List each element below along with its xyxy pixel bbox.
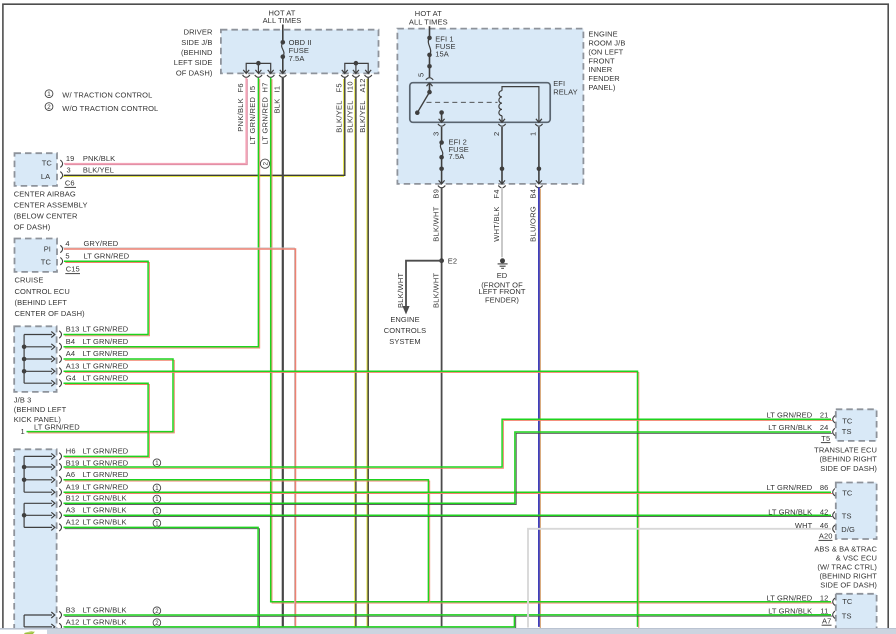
svg-text:A4: A4 [66, 349, 75, 358]
label CRUISE CONTROL ECU [15, 276, 86, 318]
svg-text:2: 2 [47, 104, 51, 111]
label BLK/WHT (B9 wire) [431, 206, 440, 242]
wire LT GRN/BLK B12 to translate ECU pin 24 [64, 432, 833, 505]
label WHT/BLK (F4 wire) [492, 206, 501, 241]
internal bus (F5/I10/A12 group) [345, 61, 368, 74]
wire LT GRN/RED A6 to pin 12 line [64, 480, 430, 603]
pin 42 of ABS ECU [820, 507, 835, 519]
label LT GRN/RED pin A6 [83, 470, 129, 479]
label ED ground location [478, 271, 525, 304]
svg-text:A12: A12 [66, 518, 80, 527]
window bottom bar [0, 628, 896, 634]
svg-text:ALL TIMES: ALL TIMES [409, 17, 448, 26]
label LT GRN/RED pin 5 [84, 251, 130, 260]
svg-text:OF DASH): OF DASH) [14, 223, 51, 232]
svg-text:C15: C15 [66, 264, 80, 273]
node E2 [439, 257, 457, 266]
pin B19 [24, 458, 79, 470]
pin 11 of bottom ECU [820, 606, 835, 618]
svg-text:C6: C6 [65, 179, 75, 188]
pin A4 of J/B3 [24, 349, 75, 363]
svg-text:(BEHIND RIGHT: (BEHIND RIGHT [819, 572, 877, 581]
connector C15 [65, 264, 80, 273]
relay pin 1 [529, 119, 543, 136]
pin A19 [24, 482, 79, 496]
svg-text:PI: PI [44, 245, 51, 254]
svg-text:ED: ED [497, 271, 508, 280]
label LT GRN/BLK pin B3 [83, 605, 127, 614]
pin G4 of J/B3 [24, 373, 76, 387]
svg-text:W/O TRACTION CONTROL: W/O TRACTION CONTROL [62, 104, 158, 113]
label BLK (I1 wire) [273, 98, 282, 113]
svg-text:INNER: INNER [588, 65, 612, 74]
wire BLU/ORG B4 down page [539, 187, 540, 628]
label BLK/WHT (branch) [396, 272, 405, 308]
svg-text:11: 11 [820, 606, 828, 615]
pin A13 of J/B3 [24, 361, 79, 375]
svg-text:A13: A13 [66, 361, 80, 370]
pin B3 [24, 605, 75, 618]
label LT GRN/RED pin 21 [767, 410, 813, 419]
relay switch fixed contact to pin 3 [439, 110, 444, 122]
svg-text:19: 19 [66, 154, 75, 163]
svg-text:I5: I5 [248, 86, 257, 93]
label LT GRN/RED pin B4 [83, 337, 129, 346]
label LT GRN/BLK pin A12 bottom [83, 617, 127, 626]
label LT GRN/BLK pin A3 [83, 506, 127, 515]
variant marker 1 on B19 [153, 459, 161, 467]
svg-text:B3: B3 [66, 605, 75, 614]
svg-text:FENDER): FENDER) [485, 295, 519, 304]
svg-text:LT GRN/BLK: LT GRN/BLK [83, 617, 127, 626]
taskbar leaf logo [24, 631, 35, 634]
svg-text:J/B 3: J/B 3 [14, 395, 32, 404]
svg-text:ENGINE: ENGINE [588, 29, 617, 38]
legend marker 2 W/O TRACTION CONTROL [45, 103, 158, 113]
pin B4 of J/B3 [24, 337, 75, 351]
internal bus (F6/I5/H7 group) [246, 61, 271, 74]
wire BLK/WHT B9 down page [441, 187, 443, 627]
svg-text:LT GRN/RED: LT GRN/RED [84, 251, 130, 260]
ECU box: CENTER AIRBAG CENTER ASSEMBLY [15, 153, 58, 186]
svg-text:LT GRN/BLK: LT GRN/BLK [83, 494, 127, 503]
svg-text:4: 4 [65, 239, 69, 248]
svg-text:2: 2 [492, 132, 501, 136]
svg-text:LT GRN/RED: LT GRN/RED [83, 325, 129, 334]
label LT GRN/RED (H7 wire) [261, 96, 270, 144]
wire relay pin 2 to F4 [500, 127, 505, 184]
variant marker 1 on A12 [153, 519, 161, 527]
label GRY/RED pin 4 [84, 239, 119, 248]
ECU box: traction ECU bottom [836, 594, 877, 630]
relay pin 2 [492, 119, 506, 136]
label BLK/YEL (I10 wire) [346, 100, 355, 133]
label LT GRN/BLK pin 24 [768, 423, 812, 432]
svg-text:SIDE OF DASH): SIDE OF DASH) [820, 464, 877, 473]
pin B4 of engine room J/B [529, 180, 543, 198]
variant marker 1 on A19 [153, 484, 161, 492]
pin H6 [24, 447, 75, 461]
svg-text:LT GRN/BLK: LT GRN/BLK [83, 518, 127, 527]
svg-text:OF DASH): OF DASH) [176, 68, 213, 77]
svg-text:LT GRN/RED: LT GRN/RED [83, 349, 129, 358]
svg-text:21: 21 [820, 410, 829, 419]
pin 4 of cruise ECU [60, 239, 69, 253]
svg-text:LT GRN/RED: LT GRN/RED [83, 470, 129, 479]
legend marker 1 W/ TRACTION CONTROL [45, 90, 152, 100]
svg-text:TC: TC [842, 489, 853, 498]
label ENGINE CONTROLS SYSTEM [384, 315, 426, 346]
svg-text:LT GRN/RED: LT GRN/RED [83, 447, 129, 456]
pin 46 of ABS ECU [820, 521, 835, 533]
svg-text:SYSTEM: SYSTEM [389, 337, 420, 346]
pin A12 (bottom) [24, 617, 79, 630]
label LT GRN/BLK pin 11 [768, 606, 812, 615]
wire BLK/YEL A12 down page [367, 78, 368, 628]
wire LT GRN/BLK A3 to ABS pin 42 [64, 515, 833, 516]
svg-text:A20: A20 [819, 532, 833, 541]
pin F6 of driver J/B [236, 70, 250, 93]
label LT GRN/RED pin 86 [767, 483, 813, 492]
pin I5 of driver J/B [248, 70, 262, 93]
fuse EFI 1 15A [427, 35, 455, 78]
svg-text:B9: B9 [431, 189, 440, 199]
svg-text:A19: A19 [66, 482, 80, 491]
label PNK/BLK (F6 wire) [236, 98, 245, 132]
svg-text:A6: A6 [66, 470, 75, 479]
connector A20 [819, 532, 833, 541]
svg-text:B13: B13 [66, 325, 80, 334]
pin A3 [24, 506, 75, 520]
svg-text:A3: A3 [66, 506, 75, 515]
ECU box: TRANSLATE ECU [836, 409, 877, 441]
svg-text:LT GRN/RED: LT GRN/RED [83, 482, 129, 491]
svg-text:TS: TS [842, 612, 852, 621]
svg-text:LT GRN/RED: LT GRN/RED [83, 458, 129, 467]
wire BLK/YEL I10 down page [355, 78, 356, 628]
svg-text:WHT/BLK: WHT/BLK [492, 206, 501, 241]
wire relay pin 1 to B4 [537, 127, 542, 184]
variant marker 2 on H7 wire [260, 159, 269, 168]
pin F5 of driver J/B [335, 70, 349, 93]
svg-text:& VSC ECU: & VSC ECU [836, 554, 877, 563]
svg-text:(BEHIND: (BEHIND [181, 48, 213, 57]
svg-text:1: 1 [47, 91, 51, 98]
svg-text:(W/ TRAC CTRL): (W/ TRAC CTRL) [817, 563, 877, 572]
svg-text:86: 86 [820, 483, 829, 492]
label HOT AT ALL TIMES (engine room J/B) [409, 9, 448, 26]
pin 5 of cruise ECU [60, 251, 69, 265]
label LT GRN/RED pin 12 [767, 593, 813, 602]
label LT GRN/BLK pin 42 [768, 507, 812, 516]
svg-text:W/ TRACTION CONTROL: W/ TRACTION CONTROL [62, 91, 152, 100]
svg-text:LT GRN/RED: LT GRN/RED [83, 361, 129, 370]
junction block: J/B 3 [14, 326, 56, 392]
svg-text:D/G: D/G [841, 525, 855, 534]
label LT GRN/BLK pin B12 [83, 494, 127, 503]
pin B12 [24, 494, 79, 508]
wire LT GRN/RED pin 5 to J/B3 pin B13 [64, 261, 150, 336]
junction block: lower left connector (behind box) [14, 449, 56, 634]
wire LT GRN/BLK A12 bottom joining pin 11 line [64, 615, 516, 628]
pin A6 [24, 470, 75, 484]
label BLK/YEL pin 3 [83, 165, 114, 174]
svg-text:SIDE J/B: SIDE J/B [181, 38, 212, 47]
pin 21 of translate ECU [820, 410, 835, 423]
lower box internal bus upper group [22, 456, 27, 527]
svg-text:BLU/ORG: BLU/ORG [529, 206, 538, 242]
svg-text:CONTROL ECU: CONTROL ECU [15, 287, 70, 296]
svg-text:5: 5 [65, 251, 69, 260]
svg-text:B12: B12 [66, 494, 80, 503]
svg-text:F6: F6 [236, 83, 245, 92]
wire BLK/YEL F5 to airbag pin 3 [63, 78, 345, 177]
svg-text:TC: TC [842, 597, 853, 606]
svg-text:B4: B4 [529, 189, 538, 199]
pin 86 of ABS ECU [820, 483, 835, 496]
svg-text:12: 12 [820, 593, 829, 602]
label BLK/YEL (A12 wire) [358, 100, 367, 133]
label LT GRN/RED pin B13 [83, 325, 129, 334]
variant marker 1 on A3 [153, 507, 161, 515]
svg-text:1: 1 [529, 132, 538, 136]
svg-text:E2: E2 [448, 257, 457, 266]
lower box bottom bus B3/A12 [23, 615, 25, 627]
svg-text:LT GRN/RED: LT GRN/RED [83, 337, 129, 346]
svg-text:LT GRN/RED: LT GRN/RED [261, 96, 270, 144]
label J/B 3 location [14, 395, 67, 423]
EFI RELAY box [410, 79, 578, 122]
J/B3 internal bus [22, 335, 27, 384]
svg-text:BLK/YEL: BLK/YEL [358, 100, 367, 133]
label LT GRN/BLK pin A12 [83, 518, 127, 527]
pin F4 of engine room J/B [492, 180, 506, 198]
svg-text:A12: A12 [66, 617, 80, 626]
svg-text:CENTER OF DASH): CENTER OF DASH) [15, 309, 86, 318]
wire LT GRN/RED B19 to translate ECU pin 21 [64, 419, 833, 468]
svg-text:G4: G4 [66, 373, 76, 382]
svg-text:BLK/YEL: BLK/YEL [83, 165, 114, 174]
svg-text:42: 42 [820, 507, 829, 516]
svg-text:(BEHIND RIGHT: (BEHIND RIGHT [819, 455, 877, 464]
anchor 1 LT GRN/RED [21, 423, 81, 437]
svg-text:3: 3 [67, 165, 71, 174]
ECU box: ABS & BA & TRAC & VSC ECU [836, 483, 877, 540]
wire LT GRN/RED A13 down right side [64, 371, 639, 628]
svg-text:BLK/YEL: BLK/YEL [335, 100, 344, 133]
label PNK/BLK pin 19 [83, 154, 115, 163]
svg-text:I10: I10 [346, 81, 355, 92]
svg-text:BLK/WHT: BLK/WHT [396, 272, 405, 308]
svg-text:A12: A12 [358, 78, 367, 92]
svg-text:LT GRN/BLK: LT GRN/BLK [83, 506, 127, 515]
svg-text:2: 2 [262, 161, 269, 165]
relay coil [499, 87, 539, 123]
variant marker 1 on B12 [153, 495, 161, 503]
wire LT GRN/RED H7 to traction ECU pin 12 line [271, 78, 833, 603]
svg-text:LT GRN/BLK: LT GRN/BLK [768, 507, 812, 516]
pin H7 of driver J/B [261, 70, 275, 93]
wire LT GRN/BLK A12 down to bottom line [64, 527, 260, 628]
wire LT GRN/RED A19 to ABS pin 86 [64, 492, 833, 493]
svg-text:FENDER: FENDER [588, 74, 620, 83]
svg-text:CENTER ASSEMBLY: CENTER ASSEMBLY [14, 200, 88, 209]
wire LT GRN/BLK B3 to traction ECU pin 11 [64, 615, 833, 617]
fuse EFI 2 7.5A [439, 127, 469, 184]
svg-text:WHT: WHT [795, 521, 813, 530]
svg-text:TRANSLATE ECU: TRANSLATE ECU [814, 445, 877, 454]
svg-text:H7: H7 [261, 82, 270, 92]
svg-text:7.5A: 7.5A [289, 54, 305, 63]
label ABS ECU location [814, 545, 877, 590]
label BLK/WHT (B9 below E2) [431, 272, 440, 308]
pin A12 of driver J/B [358, 70, 372, 93]
label LT GRN/RED (I5 wire) [248, 96, 257, 144]
relay pin 3 [431, 119, 445, 136]
label LT GRN/RED pin A13 [83, 361, 129, 370]
svg-text:LT GRN/RED: LT GRN/RED [34, 423, 80, 432]
relay actuation dashed link [427, 101, 498, 103]
svg-text:SIDE OF DASH): SIDE OF DASH) [820, 581, 877, 590]
label LT GRN/RED pin H6 [83, 447, 129, 456]
svg-text:FRONT: FRONT [588, 56, 615, 65]
svg-text:B19: B19 [66, 458, 80, 467]
svg-text:TS: TS [842, 427, 852, 436]
wire LT GRN/RED I5 to J/B3 pin B4 [64, 78, 260, 348]
wire PNK/BLK F6 to airbag pin 19 [64, 78, 247, 165]
svg-text:LT GRN/RED: LT GRN/RED [248, 96, 257, 144]
label LT GRN/RED pin A4 [83, 349, 129, 358]
svg-text:7.5A: 7.5A [449, 152, 465, 161]
pin A12 (upper) [24, 518, 79, 532]
wire BLK I1 down page [282, 78, 284, 627]
pin 24 of translate ECU [820, 423, 835, 436]
svg-text:5: 5 [416, 73, 425, 77]
svg-text:BLK/WHT: BLK/WHT [431, 206, 440, 242]
wire feed into EFI 1 fuse [429, 26, 431, 38]
svg-text:(BEHIND LEFT: (BEHIND LEFT [15, 298, 68, 307]
relay pin 5 connector into EFI relay [416, 73, 433, 87]
svg-text:T5: T5 [821, 434, 830, 443]
svg-text:TC: TC [842, 417, 853, 426]
svg-text:ROOM J/B: ROOM J/B [588, 38, 625, 47]
ground ED symbol [498, 258, 508, 268]
connector A7 [822, 616, 832, 625]
svg-text:3: 3 [431, 132, 440, 136]
svg-text:(BEHIND LEFT: (BEHIND LEFT [14, 405, 67, 414]
pin I1 of driver J/B [273, 70, 287, 93]
svg-text:LT GRN/BLK: LT GRN/BLK [83, 605, 127, 614]
svg-text:F5: F5 [335, 83, 344, 92]
svg-text:F4: F4 [492, 189, 501, 198]
svg-text:LA: LA [41, 172, 50, 181]
svg-text:BLK: BLK [273, 98, 282, 113]
junction block: DRIVER SIDE J/B [174, 28, 379, 78]
svg-text:LT GRN/RED: LT GRN/RED [83, 373, 129, 382]
svg-text:TC: TC [42, 158, 53, 167]
svg-text:B4: B4 [66, 337, 75, 346]
svg-text:CENTER AIRBAG: CENTER AIRBAG [14, 189, 76, 198]
label TRANSLATE ECU location [814, 445, 877, 473]
svg-text:BLK/YEL: BLK/YEL [346, 100, 355, 133]
variant marker 2 on A12 bottom [153, 619, 161, 627]
wire feed into OBD II fuse [282, 25, 284, 43]
variant marker 2 on B3 [153, 607, 161, 615]
pin 12 of bottom ECU [820, 593, 835, 605]
pin B9 of engine room J/B [431, 180, 445, 198]
connector C6 [65, 179, 77, 188]
svg-text:24: 24 [820, 423, 829, 432]
fuse OBD II 7.5A [281, 38, 312, 73]
svg-text:LEFT SIDE: LEFT SIDE [174, 58, 213, 67]
ECU box: CRUISE CONTROL ECU [15, 239, 58, 272]
svg-text:LT GRN/RED: LT GRN/RED [767, 410, 813, 419]
label CENTER AIRBAG CENTER ASSEMBLY [14, 189, 88, 231]
label LT GRN/RED pin G4 [83, 373, 129, 382]
wire GRY/RED pin 4 down page [63, 248, 296, 627]
svg-text:BLK/WHT: BLK/WHT [431, 272, 440, 308]
label BLU/ORG (B4 wire) [529, 206, 538, 242]
svg-text:ALL TIMES: ALL TIMES [263, 16, 302, 25]
svg-text:GRY/RED: GRY/RED [84, 239, 119, 248]
svg-text:I1: I1 [273, 86, 282, 93]
svg-text:H6: H6 [66, 447, 76, 456]
svg-text:PNK/BLK: PNK/BLK [236, 98, 245, 132]
svg-text:LT GRN/RED: LT GRN/RED [767, 483, 813, 492]
svg-text:ABS & BA &TRAC: ABS & BA &TRAC [814, 545, 877, 554]
svg-text:TC: TC [41, 257, 52, 266]
wire LT GRN/RED G4 to H6 [64, 383, 150, 458]
connector T5 [821, 434, 831, 443]
label HOT AT ALL TIMES (driver J/B) [263, 9, 302, 25]
junction block: ENGINE ROOM J/B [397, 29, 625, 184]
svg-text:PANEL): PANEL) [588, 83, 616, 92]
label BLK/YEL (F5 wire) [335, 100, 344, 133]
label LT GRN/RED pin A19 [83, 482, 129, 491]
svg-text:DRIVER: DRIVER [184, 28, 213, 37]
pin I10 of driver J/B [346, 70, 360, 93]
svg-text:(BELOW CENTER: (BELOW CENTER [14, 212, 78, 221]
svg-text:CRUISE: CRUISE [15, 276, 44, 285]
svg-text:LT GRN/BLK: LT GRN/BLK [768, 423, 812, 432]
svg-text:LT GRN/RED: LT GRN/RED [767, 593, 813, 602]
pin 3 of airbag assembly [60, 165, 70, 179]
svg-text:CONTROLS: CONTROLS [384, 326, 426, 335]
svg-text:ENGINE: ENGINE [390, 315, 419, 324]
wire WHT ABS pin 46 down page [528, 529, 831, 628]
svg-text:RELAY: RELAY [553, 88, 578, 97]
wire LT GRN/RED A4 to anchor 1 [27, 359, 175, 433]
svg-text:PNK/BLK: PNK/BLK [83, 154, 115, 163]
relay switch (movable blade) [415, 83, 432, 115]
pin 19 of airbag assembly [60, 154, 74, 168]
svg-text:LT GRN/BLK: LT GRN/BLK [768, 606, 812, 615]
label WHT pin 46 [795, 521, 813, 530]
svg-text:(ON LEFT: (ON LEFT [588, 47, 623, 56]
wire BLK/WHT branch to engine controls system [402, 261, 441, 315]
svg-text:A7: A7 [822, 616, 831, 625]
svg-text:1: 1 [21, 427, 25, 436]
svg-text:TS: TS [842, 511, 852, 520]
label LT GRN/RED pin B19 [83, 458, 129, 467]
wire WHT/BLK F4 to ground ED [501, 187, 503, 257]
svg-text:46: 46 [820, 521, 829, 530]
pin B13 of J/B3 [24, 325, 79, 339]
svg-text:15A: 15A [435, 49, 449, 58]
